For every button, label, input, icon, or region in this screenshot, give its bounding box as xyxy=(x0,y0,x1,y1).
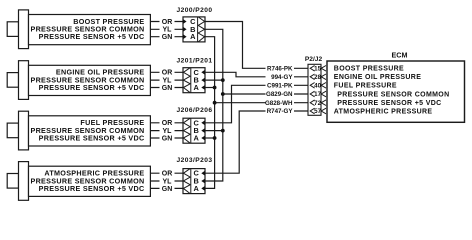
connector J201/P201 body xyxy=(183,68,205,93)
wire GN sensor 2 to connector xyxy=(150,87,183,89)
svg-text:OR: OR xyxy=(162,70,173,77)
svg-text:994-GY: 994-GY xyxy=(271,74,293,81)
ECM pin 28 socket chevron xyxy=(321,74,326,80)
svg-text:PRESSURE SENSOR COMMON: PRESSURE SENSOR COMMON xyxy=(337,91,449,98)
wire label G829-GN xyxy=(266,90,295,97)
ECM pin 57 socket chevron xyxy=(321,108,326,114)
svg-text:OR: OR xyxy=(162,120,173,127)
svg-text:A: A xyxy=(194,134,200,143)
wire: engine oil C signal J201 to pin 28 (994-GY) xyxy=(205,72,310,77)
wire OR sensor 3 to connector xyxy=(150,122,183,124)
svg-text:57: 57 xyxy=(314,108,321,115)
wire: +5V bus tee to pin 72 xyxy=(215,102,310,104)
wire: atmospheric C signal J203 to pin 57 (R747-GY) xyxy=(205,111,310,173)
ECM pin 15 socket chevron xyxy=(321,66,326,72)
connector J203/P203 sensor-side zigzag xyxy=(183,169,190,194)
wire: common bus tee to pin 17 xyxy=(223,93,310,95)
svg-text:G828-WH: G828-WH xyxy=(265,100,293,107)
connector P2/J2 body xyxy=(308,64,321,115)
P2/J2 pin 40 socket chevron xyxy=(310,83,314,89)
P2/J2 pin 72 socket chevron xyxy=(310,100,314,106)
svg-text:J203/P203: J203/P203 xyxy=(177,157,213,164)
svg-text:PRESSURE SENSOR +5 VDC: PRESSURE SENSOR +5 VDC xyxy=(39,83,145,92)
svg-text:72: 72 xyxy=(314,100,321,107)
junction dot: J201 A to +5V bus xyxy=(213,86,217,90)
pressure sensor transducer symbol 1 (port nipple) xyxy=(7,22,18,37)
svg-text:BOOST PRESSURE: BOOST PRESSURE xyxy=(334,66,404,73)
wire label R746-PK xyxy=(266,65,295,72)
wire OR sensor 2 to connector xyxy=(150,71,183,73)
svg-text:P2/J2: P2/J2 xyxy=(305,56,323,63)
svg-text:J206/P206: J206/P206 xyxy=(177,107,213,114)
svg-text:28: 28 xyxy=(314,74,321,81)
pressure sensor transducer symbol 1 (body bar) xyxy=(19,10,29,49)
svg-text:GN: GN xyxy=(162,135,173,142)
connector J200/P200 harness-side zigzag xyxy=(198,17,204,42)
svg-text:ENGINE OIL PRESSURE: ENGINE OIL PRESSURE xyxy=(334,74,421,81)
wire: fuel C signal J206 to pin 40 (C991-PK) xyxy=(205,85,310,123)
junction dot: J206 A to +5V bus xyxy=(213,136,217,140)
svg-text:15: 15 xyxy=(314,66,321,73)
wire label 994-GY xyxy=(266,73,295,80)
+5V bus vertical (pressure sensor +5 VDC, G828-WH) xyxy=(205,37,215,189)
sensor box 4: ATMOSPHERIC PRESSURE xyxy=(29,166,151,196)
P2/J2 pin 57 socket chevron xyxy=(310,108,314,114)
svg-text:40: 40 xyxy=(314,83,321,90)
wire GN sensor 4 to connector xyxy=(150,187,183,189)
pressure sensor transducer symbol 2 (body bar) xyxy=(19,61,29,100)
svg-text:YL: YL xyxy=(163,78,173,85)
svg-text:A: A xyxy=(194,83,200,92)
svg-text:J201/P201: J201/P201 xyxy=(177,57,213,64)
wire GN sensor 1 to connector xyxy=(150,36,183,38)
wire: J201 pin B to common bus xyxy=(205,79,223,81)
svg-text:YL: YL xyxy=(163,178,173,185)
P2/J2 pin 15 socket chevron xyxy=(310,66,314,72)
P2/J2 pin 17 socket chevron xyxy=(310,91,314,97)
wire label C991-PK xyxy=(266,82,295,89)
pressure sensor transducer symbol 2 (port nipple) xyxy=(7,73,18,88)
ECM pin 72 socket chevron xyxy=(321,100,326,106)
svg-text:R747-GY: R747-GY xyxy=(267,108,294,115)
ECM box xyxy=(327,61,465,122)
svg-text:ECM: ECM xyxy=(392,51,408,60)
wire YL sensor 2 to connector xyxy=(150,79,183,81)
connector J206/P206 body xyxy=(183,118,205,143)
wire label R747-GY xyxy=(266,107,295,114)
sensor box 2: ENGINE OIL PRESSURE xyxy=(29,65,151,95)
common bus vertical (sensor common, G829-GN) xyxy=(205,29,223,181)
svg-text:A: A xyxy=(190,32,196,41)
wire YL sensor 1 to connector xyxy=(150,28,183,30)
svg-text:YL: YL xyxy=(163,27,173,34)
svg-text:GN: GN xyxy=(162,85,173,92)
wire OR sensor 1 to connector xyxy=(150,21,183,23)
ECM pin 40 socket chevron xyxy=(321,83,326,89)
svg-text:GN: GN xyxy=(162,34,173,41)
wire: J206 pin B to common bus xyxy=(205,130,223,132)
connector J203/P203 body xyxy=(183,169,205,194)
connector J206/P206 sensor-side zigzag xyxy=(183,118,190,143)
svg-text:R746-PK: R746-PK xyxy=(267,66,293,73)
svg-text:J200/P200: J200/P200 xyxy=(177,7,213,14)
svg-text:PRESSURE SENSOR +5 VDC: PRESSURE SENSOR +5 VDC xyxy=(39,133,145,142)
pressure sensor transducer symbol 4 (port nipple) xyxy=(7,174,18,189)
svg-text:OR: OR xyxy=(162,171,173,178)
wire YL sensor 3 to connector xyxy=(150,130,183,132)
svg-text:GN: GN xyxy=(162,186,173,193)
pressure sensor transducer symbol 4 (body bar) xyxy=(19,162,29,201)
svg-text:G829-GN: G829-GN xyxy=(266,91,293,98)
svg-text:C991-PK: C991-PK xyxy=(267,83,293,90)
pressure sensor transducer symbol 3 (body bar) xyxy=(19,111,29,150)
svg-text:FUEL PRESSURE: FUEL PRESSURE xyxy=(334,83,397,90)
svg-text:PRESSURE SENSOR +5 VDC: PRESSURE SENSOR +5 VDC xyxy=(39,32,145,41)
junction dot: +5V bus tee pin 72 xyxy=(213,101,217,105)
wire label G828-WH xyxy=(266,99,295,106)
svg-text:17: 17 xyxy=(314,91,321,98)
wire OR sensor 4 to connector xyxy=(150,172,183,174)
svg-text:YL: YL xyxy=(163,128,173,135)
connector J201/P201 sensor-side zigzag xyxy=(183,68,190,93)
P2/J2 pin 28 socket chevron xyxy=(310,74,314,80)
svg-text:PRESSURE SENSOR +5 VDC: PRESSURE SENSOR +5 VDC xyxy=(39,184,145,193)
ECM pin 17 socket chevron xyxy=(321,91,326,97)
svg-text:A: A xyxy=(194,184,200,193)
svg-text:OR: OR xyxy=(162,19,173,26)
junction dot: common bus tee pin 17 xyxy=(221,92,225,96)
connector J200/P200 body xyxy=(183,17,205,42)
svg-text:ATMOSPHERIC PRESSURE: ATMOSPHERIC PRESSURE xyxy=(334,108,433,115)
wire: J201 pin A to +5V bus xyxy=(205,87,215,89)
wire YL sensor 4 to connector xyxy=(150,180,183,182)
pressure sensor transducer symbol 3 (port nipple) xyxy=(7,123,18,138)
junction dot: J201 B to common bus xyxy=(221,78,225,82)
sensor box 1: BOOST PRESSURE xyxy=(29,15,151,45)
wire: boost C signal J200 to pin 15 (R746-PK) xyxy=(205,22,310,69)
svg-text:PRESSURE SENSOR +5 VDC: PRESSURE SENSOR +5 VDC xyxy=(337,100,441,107)
wire: J206 pin A to +5V bus xyxy=(205,137,215,139)
wire GN sensor 3 to connector xyxy=(150,137,183,139)
junction dot: J206 B to common bus xyxy=(221,129,225,133)
sensor box 3: FUEL PRESSURE xyxy=(29,116,151,146)
